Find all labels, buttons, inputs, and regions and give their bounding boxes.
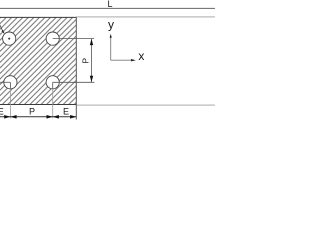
svg-text:P: P: [80, 58, 90, 64]
y axis arrow: [110, 34, 112, 38]
bottom dimension line E P E: [0, 116, 76, 118]
vertical P dimension line: [91, 39, 93, 83]
hole UR: [46, 32, 59, 45]
hole LL: [4, 76, 17, 89]
arrow up (P dim top): [90, 39, 93, 45]
svg-text:E: E: [63, 107, 69, 117]
centerline of hole UR going right to P dimension: [53, 38, 94, 40]
bowtie arrows at first hole extension: [4, 115, 10, 119]
plate bottom edge: [0, 104, 76, 106]
center dot of hole UL: [8, 38, 10, 40]
centerline/extension of hole LL going down: [9, 82, 11, 89]
svg-text:P: P: [29, 106, 35, 116]
plate right edge / extension line down to dimension: [75, 17, 77, 120]
svg-text:y: y: [108, 18, 114, 32]
hole UL (white knockout): [3, 32, 16, 45]
arrow down (P dim bottom): [90, 76, 93, 82]
sectioned plate body with hatching: [0, 17, 76, 104]
svg-text:x: x: [138, 49, 144, 63]
hole LR: [46, 76, 59, 89]
svg-text:E: E: [0, 107, 4, 117]
dimension line L (overall length), full width: [0, 7, 215, 9]
svg-text:L: L: [107, 0, 112, 9]
x axis arrow: [131, 59, 136, 61]
plate top edge: [0, 16, 76, 18]
plate outline continuation (top edge, phantom grey): [76, 16, 215, 18]
centerline of hole LL (horizontal from image edge): [0, 81, 10, 83]
centerline of hole LR going right to P dimension: [53, 81, 95, 83]
leader arrow to hole UL (cut at image edge): [0, 23, 4, 33]
arrow at plate right edge: [70, 115, 76, 119]
plate outline continuation (bottom edge, phantom grey): [76, 104, 215, 106]
centerline/extension of hole LR going down: [52, 82, 54, 89]
coordinate axes icon: [110, 36, 112, 60]
bowtie arrows at second hole extension: [47, 115, 53, 119]
